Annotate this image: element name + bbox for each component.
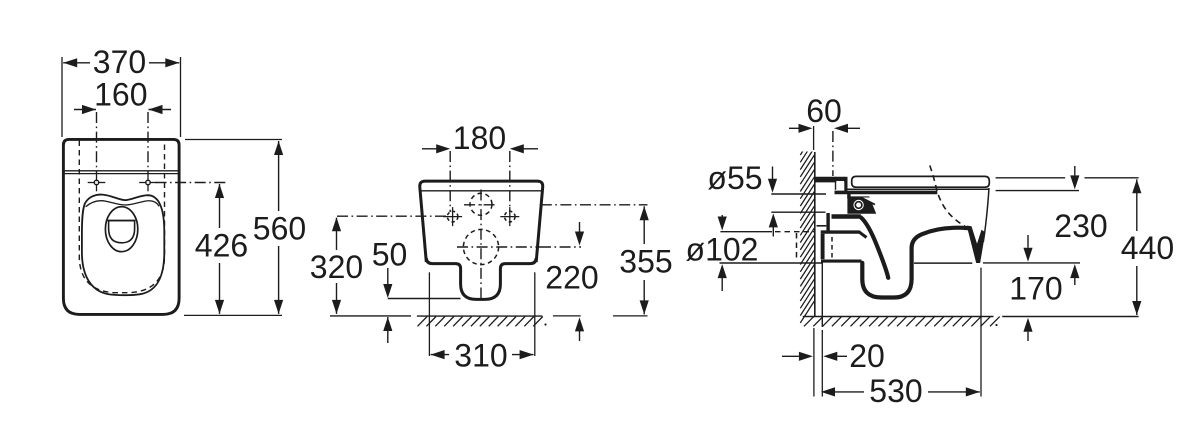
- svg-text:355: 355: [619, 244, 672, 280]
- svg-text:50: 50: [372, 237, 408, 273]
- svg-text:ø102: ø102: [686, 232, 759, 268]
- svg-text:560: 560: [253, 211, 306, 247]
- svg-text:170: 170: [1009, 270, 1062, 306]
- svg-text:310: 310: [454, 338, 507, 374]
- svg-text:20: 20: [849, 338, 885, 374]
- svg-text:530: 530: [869, 373, 922, 409]
- svg-text:60: 60: [806, 93, 842, 129]
- svg-text:180: 180: [453, 120, 506, 156]
- svg-text:440: 440: [1121, 230, 1174, 266]
- svg-text:220: 220: [545, 260, 598, 296]
- svg-text:370: 370: [93, 44, 146, 80]
- svg-text:230: 230: [1054, 208, 1107, 244]
- svg-text:160: 160: [94, 77, 147, 113]
- svg-text:ø55: ø55: [707, 160, 762, 196]
- svg-text:426: 426: [195, 228, 248, 264]
- svg-text:320: 320: [310, 249, 363, 285]
